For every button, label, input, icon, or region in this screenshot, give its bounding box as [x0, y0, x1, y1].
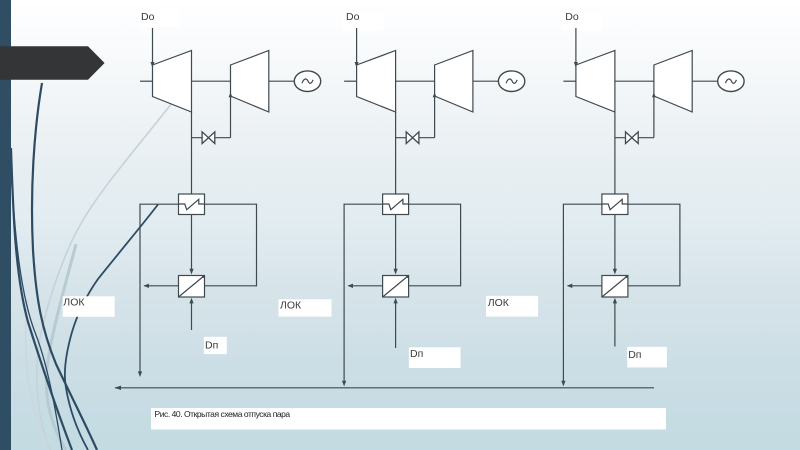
svg-text:Do: Do	[565, 11, 579, 23]
svg-text:Dп: Dп	[628, 349, 641, 361]
svg-text:Do: Do	[141, 11, 155, 23]
svg-text:ЛОК: ЛОК	[280, 299, 302, 311]
svg-text:Do: Do	[346, 11, 360, 23]
svg-text:Dп: Dп	[410, 348, 423, 360]
svg-text:ЛОК: ЛОК	[488, 297, 510, 309]
svg-text:ЛОК: ЛОК	[63, 297, 85, 309]
svg-text:Dп: Dп	[205, 339, 218, 351]
svg-text:Рис. 40. Открытая схема отпуск: Рис. 40. Открытая схема отпуска пара	[155, 409, 291, 419]
